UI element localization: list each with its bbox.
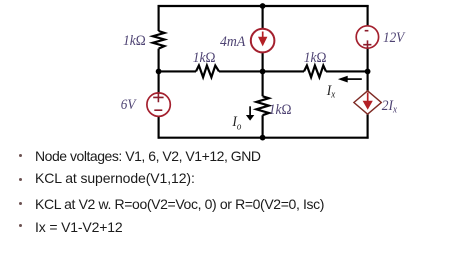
svg-text:1kΩ: 1kΩ bbox=[123, 33, 146, 50]
svg-text:1kΩ: 1kΩ bbox=[304, 50, 327, 67]
svg-text:Io: Io bbox=[231, 113, 241, 132]
svg-text:4mA: 4mA bbox=[220, 33, 245, 50]
svg-text:6V: 6V bbox=[121, 96, 137, 113]
svg-text:2Ix: 2Ix bbox=[382, 97, 398, 115]
svg-text:12V: 12V bbox=[383, 29, 406, 46]
svg-text:1kΩ: 1kΩ bbox=[269, 101, 292, 118]
svg-text:1kΩ: 1kΩ bbox=[193, 50, 216, 67]
svg-text:Ix: Ix bbox=[326, 82, 336, 100]
